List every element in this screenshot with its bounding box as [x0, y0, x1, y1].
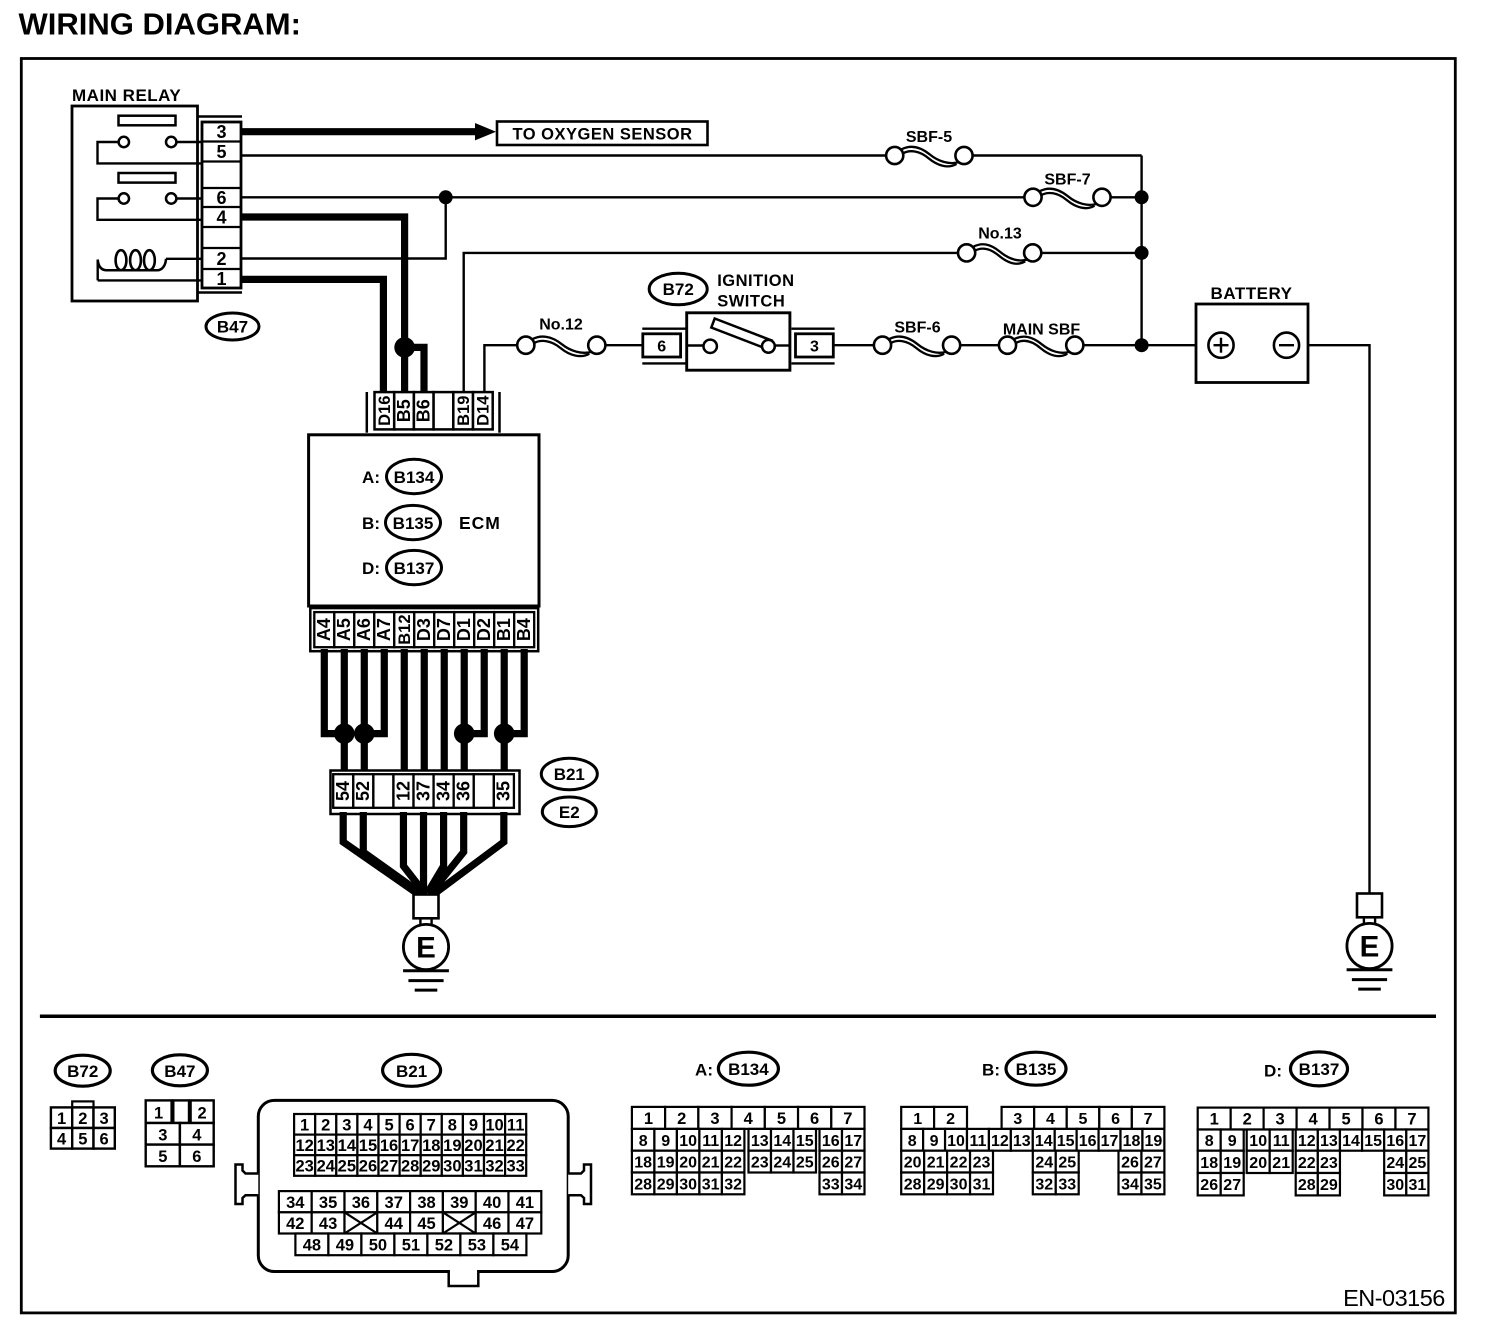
- svg-text:42: 42: [286, 1215, 304, 1233]
- svg-text:20: 20: [679, 1155, 697, 1172]
- svg-text:24: 24: [1386, 1155, 1404, 1172]
- svg-text:D:: D:: [1264, 1062, 1282, 1081]
- svg-text:1: 1: [300, 1116, 309, 1134]
- svg-text:7: 7: [427, 1116, 436, 1134]
- svg-text:1: 1: [57, 1110, 66, 1128]
- svg-text:B134: B134: [394, 468, 435, 487]
- svg-text:7: 7: [1144, 1111, 1153, 1128]
- svg-text:2: 2: [1243, 1111, 1252, 1129]
- svg-text:44: 44: [385, 1215, 404, 1233]
- svg-text:25: 25: [796, 1155, 814, 1172]
- svg-text:B137: B137: [1299, 1060, 1340, 1079]
- svg-text:9: 9: [1228, 1133, 1237, 1150]
- svg-text:17: 17: [844, 1133, 862, 1150]
- svg-text:36: 36: [454, 781, 474, 801]
- svg-text:B21: B21: [554, 765, 585, 784]
- svg-text:3: 3: [710, 1110, 719, 1128]
- svg-text:8: 8: [908, 1133, 917, 1150]
- svg-text:B135: B135: [393, 514, 434, 533]
- svg-text:B47: B47: [217, 318, 248, 337]
- svg-text:25: 25: [1408, 1155, 1426, 1172]
- svg-text:26: 26: [359, 1158, 377, 1176]
- svg-text:6: 6: [406, 1116, 415, 1134]
- svg-text:D2: D2: [474, 618, 494, 641]
- svg-text:B72: B72: [67, 1062, 98, 1081]
- svg-text:31: 31: [973, 1176, 991, 1193]
- svg-text:18: 18: [1123, 1133, 1141, 1150]
- svg-text:13: 13: [317, 1137, 335, 1155]
- svg-text:18: 18: [422, 1137, 440, 1155]
- svg-text:26: 26: [1200, 1177, 1218, 1194]
- svg-text:26: 26: [822, 1155, 840, 1172]
- svg-text:11: 11: [1273, 1133, 1290, 1150]
- svg-text:B134: B134: [728, 1060, 769, 1079]
- svg-text:28: 28: [401, 1158, 419, 1176]
- svg-text:30: 30: [950, 1176, 968, 1193]
- svg-text:B:: B:: [362, 514, 380, 533]
- svg-text:28: 28: [904, 1176, 922, 1193]
- svg-text:49: 49: [336, 1237, 354, 1255]
- svg-text:11: 11: [702, 1133, 719, 1150]
- svg-text:5: 5: [158, 1148, 167, 1166]
- svg-text:B1: B1: [494, 618, 514, 641]
- svg-text:A4: A4: [314, 618, 334, 641]
- svg-text:29: 29: [422, 1158, 440, 1176]
- svg-text:17: 17: [1408, 1133, 1426, 1150]
- svg-text:23: 23: [751, 1155, 769, 1172]
- svg-text:12: 12: [1298, 1133, 1316, 1150]
- svg-text:6: 6: [1374, 1111, 1383, 1129]
- svg-text:3: 3: [810, 339, 819, 356]
- svg-text:30: 30: [679, 1176, 697, 1193]
- svg-text:4: 4: [216, 207, 226, 227]
- svg-text:48: 48: [303, 1237, 321, 1255]
- svg-text:8: 8: [448, 1116, 457, 1134]
- svg-text:3: 3: [100, 1110, 109, 1128]
- svg-text:39: 39: [450, 1194, 468, 1212]
- svg-text:35: 35: [494, 781, 514, 801]
- svg-text:4: 4: [192, 1126, 202, 1144]
- svg-text:B12: B12: [396, 614, 414, 644]
- svg-text:No.13: No.13: [978, 226, 1022, 243]
- svg-text:41: 41: [516, 1194, 534, 1212]
- svg-text:B:: B:: [982, 1061, 1000, 1080]
- svg-text:12: 12: [724, 1133, 742, 1150]
- svg-text:E2: E2: [559, 803, 580, 822]
- svg-text:27: 27: [844, 1155, 862, 1172]
- svg-text:11: 11: [507, 1116, 524, 1134]
- svg-text:2: 2: [216, 249, 226, 269]
- svg-text:ECM: ECM: [459, 513, 501, 533]
- svg-text:E: E: [1360, 930, 1380, 963]
- svg-text:SBF-7: SBF-7: [1044, 172, 1090, 189]
- svg-text:10: 10: [1249, 1133, 1267, 1150]
- svg-text:30: 30: [443, 1158, 461, 1176]
- svg-text:6: 6: [192, 1148, 201, 1166]
- svg-text:34: 34: [434, 781, 454, 801]
- svg-text:52: 52: [353, 781, 373, 801]
- svg-text:D14: D14: [475, 395, 493, 426]
- svg-text:B6: B6: [414, 399, 434, 422]
- svg-text:23: 23: [295, 1158, 313, 1176]
- svg-text:6: 6: [216, 188, 226, 208]
- svg-text:6: 6: [657, 339, 666, 356]
- svg-text:1: 1: [644, 1110, 653, 1128]
- svg-text:D:: D:: [362, 559, 380, 578]
- svg-text:10: 10: [679, 1133, 697, 1150]
- svg-text:36: 36: [352, 1194, 370, 1212]
- svg-text:46: 46: [483, 1215, 501, 1233]
- svg-text:33: 33: [506, 1158, 524, 1176]
- svg-text:4: 4: [363, 1116, 373, 1134]
- svg-text:16: 16: [1386, 1133, 1404, 1150]
- svg-text:40: 40: [483, 1194, 501, 1212]
- svg-text:33: 33: [1058, 1176, 1076, 1193]
- svg-text:22: 22: [506, 1137, 524, 1155]
- svg-text:EN-03156: EN-03156: [1343, 1285, 1445, 1311]
- svg-text:4: 4: [57, 1131, 67, 1149]
- svg-text:B135: B135: [1016, 1060, 1057, 1079]
- svg-text:2: 2: [321, 1116, 330, 1134]
- svg-text:15: 15: [1057, 1133, 1075, 1150]
- svg-text:38: 38: [417, 1194, 435, 1212]
- svg-text:23: 23: [1320, 1155, 1338, 1172]
- svg-text:47: 47: [516, 1215, 534, 1233]
- svg-text:19: 19: [657, 1155, 675, 1172]
- svg-text:SBF-6: SBF-6: [894, 320, 940, 337]
- svg-text:9: 9: [930, 1133, 939, 1150]
- svg-text:43: 43: [319, 1215, 337, 1233]
- svg-text:14: 14: [773, 1133, 791, 1150]
- svg-text:6: 6: [810, 1110, 819, 1128]
- svg-text:15: 15: [359, 1137, 377, 1155]
- svg-text:29: 29: [657, 1176, 675, 1193]
- svg-text:A5: A5: [334, 618, 354, 641]
- svg-text:20: 20: [904, 1155, 922, 1172]
- svg-text:16: 16: [822, 1133, 840, 1150]
- svg-text:30: 30: [1386, 1177, 1404, 1194]
- svg-text:32: 32: [724, 1176, 742, 1193]
- svg-text:B47: B47: [164, 1062, 195, 1081]
- svg-text:SWITCH: SWITCH: [717, 293, 785, 311]
- svg-text:14: 14: [1035, 1133, 1053, 1150]
- svg-text:25: 25: [338, 1158, 356, 1176]
- svg-text:31: 31: [702, 1176, 720, 1193]
- svg-text:20: 20: [464, 1137, 482, 1155]
- svg-text:24: 24: [773, 1155, 791, 1172]
- svg-text:6: 6: [1111, 1111, 1120, 1128]
- svg-text:22: 22: [1298, 1155, 1316, 1172]
- svg-text:22: 22: [724, 1155, 742, 1172]
- svg-text:TO OXYGEN SENSOR: TO OXYGEN SENSOR: [512, 126, 692, 144]
- svg-text:A:: A:: [362, 468, 380, 487]
- svg-text:3: 3: [216, 122, 226, 142]
- svg-text:10: 10: [947, 1133, 965, 1150]
- svg-text:B137: B137: [394, 559, 435, 578]
- svg-text:3: 3: [1013, 1111, 1022, 1128]
- svg-text:54: 54: [333, 781, 353, 801]
- svg-text:B19: B19: [455, 396, 473, 426]
- svg-text:B5: B5: [394, 399, 414, 422]
- svg-text:5: 5: [78, 1131, 87, 1149]
- svg-text:4: 4: [1308, 1111, 1318, 1129]
- svg-text:2: 2: [677, 1110, 686, 1128]
- svg-text:54: 54: [501, 1237, 520, 1255]
- svg-text:E: E: [416, 931, 436, 964]
- svg-text:2: 2: [946, 1111, 955, 1128]
- svg-text:24: 24: [1035, 1155, 1053, 1172]
- svg-text:23: 23: [973, 1155, 991, 1172]
- svg-text:16: 16: [380, 1137, 398, 1155]
- svg-text:53: 53: [468, 1237, 486, 1255]
- svg-text:13: 13: [1013, 1133, 1031, 1150]
- svg-text:15: 15: [1364, 1133, 1382, 1150]
- svg-text:19: 19: [443, 1137, 461, 1155]
- svg-text:28: 28: [634, 1176, 652, 1193]
- svg-text:31: 31: [464, 1158, 482, 1176]
- svg-text:21: 21: [485, 1137, 503, 1155]
- svg-text:16: 16: [1079, 1133, 1097, 1150]
- svg-text:24: 24: [317, 1158, 336, 1176]
- svg-text:B21: B21: [396, 1062, 427, 1081]
- svg-text:34: 34: [844, 1176, 862, 1193]
- svg-text:A6: A6: [354, 618, 374, 641]
- svg-text:12: 12: [393, 781, 413, 801]
- svg-text:4: 4: [744, 1110, 754, 1128]
- svg-text:21: 21: [702, 1155, 720, 1172]
- svg-text:8: 8: [639, 1133, 648, 1150]
- svg-text:14: 14: [338, 1137, 357, 1155]
- svg-text:12: 12: [991, 1133, 1009, 1150]
- svg-text:21: 21: [1272, 1155, 1290, 1172]
- svg-text:29: 29: [927, 1176, 945, 1193]
- svg-text:13: 13: [751, 1133, 769, 1150]
- svg-text:9: 9: [661, 1133, 670, 1150]
- svg-text:WIRING DIAGRAM:: WIRING DIAGRAM:: [19, 7, 301, 42]
- svg-text:MAIN SBF: MAIN SBF: [1003, 322, 1081, 339]
- svg-text:52: 52: [435, 1237, 453, 1255]
- svg-text:11: 11: [969, 1133, 986, 1150]
- svg-text:32: 32: [485, 1158, 503, 1176]
- svg-text:25: 25: [1058, 1155, 1076, 1172]
- svg-text:A:: A:: [695, 1061, 713, 1080]
- svg-text:14: 14: [1342, 1133, 1360, 1150]
- svg-text:6: 6: [100, 1131, 109, 1149]
- svg-text:D7: D7: [434, 618, 454, 641]
- svg-text:21: 21: [927, 1155, 945, 1172]
- svg-text:D1: D1: [454, 618, 474, 641]
- svg-text:D16: D16: [376, 396, 394, 426]
- svg-text:35: 35: [1144, 1176, 1162, 1193]
- svg-text:5: 5: [216, 142, 226, 162]
- svg-text:17: 17: [1101, 1133, 1119, 1150]
- svg-text:MAIN RELAY: MAIN RELAY: [72, 86, 181, 105]
- svg-text:No.12: No.12: [539, 317, 583, 334]
- svg-text:19: 19: [1144, 1133, 1162, 1150]
- svg-text:4: 4: [1046, 1111, 1055, 1128]
- svg-text:32: 32: [1035, 1176, 1053, 1193]
- svg-text:50: 50: [369, 1237, 387, 1255]
- svg-text:10: 10: [485, 1116, 503, 1134]
- svg-text:15: 15: [796, 1133, 814, 1150]
- svg-text:27: 27: [1223, 1177, 1241, 1194]
- svg-text:22: 22: [950, 1155, 968, 1172]
- svg-text:37: 37: [385, 1194, 403, 1212]
- svg-text:18: 18: [634, 1155, 652, 1172]
- svg-text:1: 1: [216, 269, 226, 289]
- svg-text:5: 5: [1079, 1111, 1088, 1128]
- svg-text:D3: D3: [414, 618, 434, 641]
- svg-text:20: 20: [1249, 1155, 1267, 1172]
- svg-text:2: 2: [198, 1104, 207, 1122]
- svg-text:13: 13: [1320, 1133, 1338, 1150]
- svg-text:B72: B72: [663, 280, 694, 299]
- svg-text:IGNITION: IGNITION: [717, 272, 794, 290]
- svg-text:28: 28: [1298, 1177, 1316, 1194]
- svg-text:5: 5: [777, 1110, 786, 1128]
- svg-text:9: 9: [469, 1116, 478, 1134]
- svg-text:51: 51: [402, 1237, 420, 1255]
- svg-text:5: 5: [384, 1116, 393, 1134]
- svg-text:3: 3: [1276, 1111, 1285, 1129]
- svg-text:12: 12: [295, 1137, 313, 1155]
- svg-text:37: 37: [413, 781, 433, 801]
- svg-text:34: 34: [1121, 1176, 1139, 1193]
- svg-text:1: 1: [913, 1111, 922, 1128]
- svg-text:19: 19: [1223, 1155, 1241, 1172]
- svg-text:8: 8: [1205, 1133, 1214, 1150]
- svg-text:29: 29: [1320, 1177, 1338, 1194]
- svg-text:3: 3: [342, 1116, 351, 1134]
- svg-text:45: 45: [417, 1215, 435, 1233]
- svg-text:B4: B4: [514, 618, 534, 641]
- svg-text:A7: A7: [374, 618, 394, 641]
- svg-text:3: 3: [158, 1126, 167, 1144]
- svg-text:17: 17: [401, 1137, 419, 1155]
- svg-text:27: 27: [1144, 1155, 1162, 1172]
- svg-text:27: 27: [380, 1158, 398, 1176]
- svg-text:18: 18: [1200, 1155, 1218, 1172]
- svg-text:7: 7: [843, 1110, 852, 1128]
- svg-text:26: 26: [1121, 1155, 1139, 1172]
- svg-text:BATTERY: BATTERY: [1211, 284, 1293, 303]
- svg-text:5: 5: [1341, 1111, 1350, 1129]
- svg-text:7: 7: [1407, 1111, 1416, 1129]
- svg-text:33: 33: [822, 1176, 840, 1193]
- svg-text:SBF-5: SBF-5: [906, 129, 952, 146]
- svg-text:35: 35: [319, 1194, 337, 1212]
- svg-text:1: 1: [1210, 1111, 1219, 1129]
- svg-text:34: 34: [286, 1194, 305, 1212]
- svg-text:2: 2: [78, 1110, 87, 1128]
- svg-text:31: 31: [1408, 1177, 1426, 1194]
- svg-text:1: 1: [154, 1104, 163, 1122]
